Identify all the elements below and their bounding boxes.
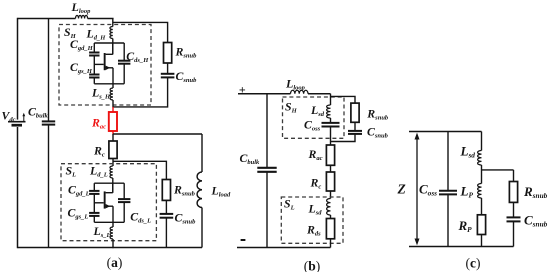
- capacitor C_oss (b): [304, 117, 340, 145]
- wire left rail upper (a): [17, 18, 19, 120]
- capacitor C_gd_L: [68, 183, 100, 198]
- wire left rail lower (a): [17, 127, 19, 248]
- wire MOSFET drain node horizontal: [94, 182, 124, 184]
- wire snubber feed (a lower): [113, 161, 166, 179]
- wire R_ds to bottom rail (b): [330, 239, 332, 248]
- wire bottom rail (a): [18, 247, 203, 249]
- resistor R_snub (c): [509, 182, 547, 203]
- wire snubber to bottom rail (a): [165, 218, 167, 248]
- capacitor C_snub (b): [348, 125, 389, 140]
- capacitor C_snub (a upper): [161, 69, 197, 84]
- wire C_snub to bottom rail (c): [513, 221, 515, 246]
- label (c): [466, 256, 481, 271]
- resistor R_snub (a upper): [164, 43, 198, 64]
- inductor L_sd (b upper): [310, 94, 331, 118]
- capacitor C_bulk (a): [28, 19, 55, 248]
- capacitor C_ds_L: [118, 183, 151, 224]
- inductor L_d_H: [86, 19, 113, 55]
- capacitor C_ds_H: [118, 43, 149, 84]
- capacitor C_oss (c): [419, 132, 457, 247]
- wire snubber feed top (a): [113, 22, 168, 42]
- dashed box S_H (b): [283, 97, 345, 138]
- capacitor C_bulk (b): [240, 94, 277, 248]
- capacitor C_gd_H: [70, 37, 100, 56]
- wire top rail (b) right: [308, 93, 331, 95]
- wire R_P to bottom rail (c): [481, 235, 483, 247]
- label (b): [304, 259, 321, 274]
- wire R_ac to R_c (b): [330, 165, 332, 172]
- impedance Z arrow: [397, 133, 420, 246]
- wire bottom rail (c): [409, 246, 514, 248]
- capacitor C_snub (c): [507, 213, 548, 229]
- wire snubber branch top (c): [513, 170, 515, 182]
- wire MOSFET source node horizontal: [94, 221, 124, 223]
- inductor L_loop (a): [71, 0, 92, 19]
- resistor R_snub (a lower): [162, 180, 195, 201]
- inductor L_s_H: [91, 84, 113, 108]
- wire node to load (a): [113, 133, 202, 135]
- wire MOSFET drain node horizontal: [94, 42, 124, 44]
- inductor L_P (c): [460, 170, 482, 215]
- wire bottom rail (b): [237, 247, 331, 249]
- wire snubber return (a upper): [113, 77, 168, 107]
- capacitor C_gs_H: [70, 56, 100, 84]
- wire top rail (a) right segment: [88, 18, 114, 20]
- wire (b snubber mid): [354, 122, 356, 130]
- resistor R_ds (b): [306, 219, 335, 239]
- resistor R_P (c): [458, 215, 486, 235]
- dashed box S_H (a): [59, 25, 151, 106]
- resistor R_c (a): [93, 141, 117, 159]
- resistor R_ac (b): [308, 145, 335, 165]
- inductor L_loop (b): [285, 77, 308, 94]
- wire (a upper snubber mid): [167, 63, 169, 73]
- transistor S_L MOSFET body: [94, 183, 113, 222]
- label (a): [107, 255, 123, 270]
- capacitor C_gs_L: [68, 194, 100, 222]
- capacitor C_snub (a lower): [160, 210, 197, 225]
- svg-text:(a): (a): [107, 255, 123, 270]
- inductor L_d_L: [89, 164, 113, 193]
- dashed box S_L (a): [61, 163, 156, 240]
- wire top rail (a) left segment: [18, 18, 76, 20]
- label - terminal (b): [241, 239, 246, 241]
- svg-text:Z: Z: [397, 181, 406, 196]
- inductor L_s_L: [93, 222, 114, 248]
- wire (c snubber mid): [513, 202, 515, 217]
- battery V_dc: [2, 108, 26, 125]
- wire snubber return (b): [331, 134, 356, 142]
- inductor L_sd (b lower): [308, 199, 331, 219]
- wire top rail (c): [409, 131, 482, 133]
- wire snubber feed (b): [331, 96, 356, 103]
- wire node to snubber (c): [482, 169, 514, 171]
- wire R_ac to R_c: [112, 134, 114, 141]
- wire (a lower snubber mid): [165, 200, 167, 213]
- label + terminal (b): [239, 83, 246, 97]
- resistor R_ac (red): [91, 107, 117, 135]
- wire R_c to S_L (b): [330, 191, 332, 199]
- dashed box S_L (b): [281, 197, 343, 244]
- resistor R_c (b): [310, 172, 335, 191]
- wire top rail (b) left: [238, 93, 291, 95]
- svg-text:(b): (b): [304, 259, 321, 273]
- inductor L_load: [197, 134, 231, 248]
- wire MOSFET source node horizontal: [94, 83, 124, 85]
- wire R_c to S_L drain node: [112, 159, 114, 167]
- inductor L_sd (c): [460, 132, 482, 171]
- transistor S_H MOSFET body: [94, 43, 113, 84]
- resistor R_snub (b): [351, 103, 389, 122]
- svg-text:(c): (c): [466, 256, 481, 271]
